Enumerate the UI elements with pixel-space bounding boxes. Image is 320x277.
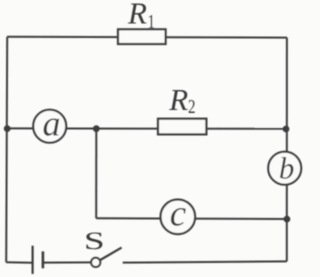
svg-text:S: S <box>84 227 105 254</box>
svg-text:b: b <box>279 151 295 186</box>
svg-text:1: 1 <box>148 11 155 33</box>
svg-text:R: R <box>168 82 188 117</box>
svg-text:R: R <box>127 0 147 30</box>
svg-text:2: 2 <box>188 95 195 118</box>
svg-text:a: a <box>43 104 61 144</box>
svg-text:c: c <box>170 193 187 234</box>
